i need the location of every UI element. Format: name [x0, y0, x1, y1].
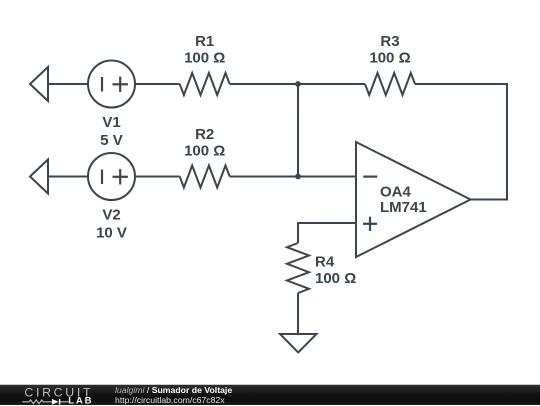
- svg-text:V1: V1: [102, 114, 120, 131]
- node A (junction R1/R3/wire down): [295, 81, 301, 87]
- wire ground to V2: [48, 176, 88, 178]
- node B (junction at inverting input): [295, 174, 301, 180]
- resistor R1: [180, 73, 230, 95]
- svg-text:100 Ω: 100 Ω: [369, 49, 410, 66]
- label R2 100 Ω: [184, 126, 225, 160]
- credit text: [115, 386, 232, 405]
- svg-text:5 V: 5 V: [100, 132, 123, 149]
- ground (port symbol left of V1): [30, 67, 48, 101]
- wire ground to V1: [48, 83, 88, 85]
- svg-text:V2: V2: [102, 207, 120, 224]
- label OA4 LM741: [380, 184, 427, 217]
- label R4 100 Ω: [315, 254, 356, 288]
- svg-text:100 Ω: 100 Ω: [184, 142, 225, 159]
- svg-text:R1: R1: [195, 33, 214, 50]
- svg-text:100 Ω: 100 Ω: [184, 49, 225, 66]
- voltage source V1: [88, 61, 135, 108]
- wire V1 to R1: [135, 83, 180, 85]
- svg-text:LM741: LM741: [380, 199, 427, 216]
- CircuitLab logo: [22, 385, 102, 406]
- svg-text:R4: R4: [315, 254, 335, 271]
- wire R1 to node A: [230, 83, 365, 85]
- resistor R4: [287, 243, 309, 293]
- ground (port symbol left of V2): [30, 160, 48, 194]
- wire op-amp non-inverting input to R4: [298, 223, 356, 243]
- wire node A down to node B: [297, 84, 299, 177]
- svg-text:LAB: LAB: [68, 395, 93, 406]
- label R3 100 Ω: [369, 33, 410, 67]
- svg-text:10 V: 10 V: [96, 225, 127, 242]
- label R1 100 Ω: [184, 33, 225, 67]
- wire V2 to R2: [135, 176, 180, 178]
- wire R2 to op-amp inverting input: [230, 176, 356, 178]
- op-amp OA4: [356, 142, 471, 257]
- ground (below R4): [280, 334, 317, 352]
- svg-text:100 Ω: 100 Ω: [315, 270, 356, 287]
- label V2 10 V: [96, 207, 127, 242]
- wire R4 to ground: [297, 293, 299, 334]
- label V1 5 V: [100, 114, 123, 149]
- resistor R3: [365, 73, 415, 95]
- svg-text:R3: R3: [380, 33, 399, 50]
- resistor R2: [180, 166, 230, 188]
- voltage source V2: [88, 153, 135, 200]
- svg-text:OA4: OA4: [380, 184, 412, 201]
- svg-text:R2: R2: [195, 126, 214, 143]
- wire R3 to output corner: [415, 84, 507, 200]
